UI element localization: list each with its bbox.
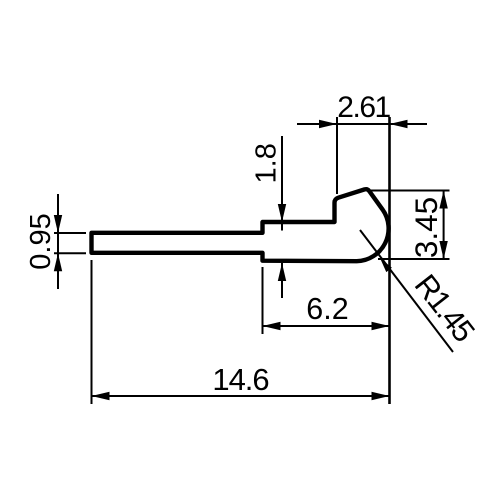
dimension 14.6 extension line left xyxy=(91,260,93,404)
dimension 3.45 dimension line xyxy=(443,191,445,260)
svg-text:2.61: 2.61 xyxy=(337,91,390,124)
svg-text:3.45: 3.45 xyxy=(408,197,444,258)
dimension 14.6 dimension line xyxy=(92,395,390,397)
dimension 2.61 extension line left xyxy=(336,117,338,194)
dimension 0.95 dimension line xyxy=(57,194,59,289)
dimension 6.2 arrow right xyxy=(372,322,390,330)
dimension 3.45 extension line bottom xyxy=(378,258,450,260)
dimension 14.6 arrow left xyxy=(92,392,110,400)
svg-text:14.6: 14.6 xyxy=(212,362,268,397)
dimension 1.8 dimension line lower xyxy=(281,263,283,298)
radius R1.45 leader line xyxy=(360,230,453,352)
dimension 0.95 extension line bottom xyxy=(54,252,86,254)
dimension 1.8 arrow down xyxy=(278,204,286,222)
dimension 1.8 dimension line upper xyxy=(281,136,283,231)
dimension 0.95 extension line top xyxy=(54,232,86,234)
profile outline xyxy=(92,189,389,261)
svg-text:1.8: 1.8 xyxy=(251,143,283,183)
dimension 0.95 arrow up xyxy=(54,253,62,271)
dimension 0.95 arrow down xyxy=(54,215,62,233)
dimension 6.2 dimension line xyxy=(263,325,390,327)
dimension 2.61 arrow right-pointing xyxy=(319,120,337,128)
dimension 2.61 dimension line xyxy=(297,123,427,125)
dimension 6.2 arrow left xyxy=(263,322,281,330)
dimension 3.45 arrow up xyxy=(439,191,447,209)
dimension 3.45 arrow down xyxy=(439,241,447,259)
radius R1.45 arrowhead xyxy=(380,258,392,272)
dimension 6.2 extension line left xyxy=(262,267,264,334)
dimension 1.8 arrow up xyxy=(278,263,286,281)
dimension 2.61 arrow left-pointing xyxy=(390,120,408,128)
shared extension line right xyxy=(388,117,391,404)
dimension 3.45 extension line top xyxy=(371,190,450,192)
svg-text:0.95: 0.95 xyxy=(25,213,57,269)
dimension 14.6 arrow right xyxy=(372,392,390,400)
svg-text:6.2: 6.2 xyxy=(306,292,348,326)
